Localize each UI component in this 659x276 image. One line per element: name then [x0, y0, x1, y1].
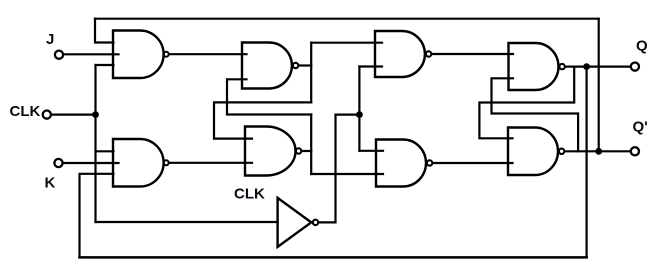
wire G3 output cross to G4 pin1	[214, 102, 311, 138]
node Q' junction	[595, 148, 602, 155]
svg-text:J: J	[46, 31, 54, 48]
inverter U9 (clock inverter)	[278, 198, 319, 247]
wire J input	[63, 53, 118, 55]
wire Q' cross to G7 pin2	[492, 78, 579, 151]
label Q'	[633, 119, 648, 136]
NAND gate G2 (K input gate)	[113, 139, 169, 187]
wire G3 output stub	[299, 64, 311, 66]
svg-text:Q: Q	[636, 38, 648, 55]
wire G4 output stub	[302, 150, 311, 152]
terminal Q'	[631, 147, 639, 155]
wire G5 output to G7 pin1	[432, 53, 513, 55]
NAND gate G8 (slave latch, Q')	[508, 128, 564, 176]
wire G1 output to G3	[169, 53, 246, 55]
wire Q cross to G8 pin1	[479, 67, 574, 139]
wire inverter output	[319, 115, 360, 223]
label J	[46, 31, 54, 48]
wire Q' feedback top border	[95, 18, 599, 20]
wire Q feedback bottom border	[80, 256, 587, 259]
label CLK	[10, 103, 41, 120]
wire CLK to G1 pin3	[96, 64, 114, 66]
node CLK junction	[92, 111, 99, 118]
wire CLK' to G6 pin1	[359, 150, 383, 152]
terminal J	[55, 51, 63, 59]
wire Q' feedback right riser	[598, 19, 600, 152]
label CLK (inverter)	[234, 185, 265, 202]
wire Q output line	[565, 65, 630, 67]
svg-text:CLK: CLK	[10, 103, 41, 120]
label K	[45, 175, 56, 192]
label Q	[636, 38, 648, 55]
NAND gate G4 (master latch)	[245, 127, 301, 176]
wire Q' output line	[565, 150, 631, 152]
NAND gate G3 (master latch)	[242, 43, 298, 89]
node CLK' junction	[356, 111, 363, 118]
terminal CLK	[43, 111, 51, 119]
wire CLK to G2 pin1	[96, 150, 114, 152]
wire Q feedback right riser	[585, 67, 587, 258]
wire CLK input	[51, 113, 95, 115]
wire Q feedback left riser to G2 pin3	[80, 174, 114, 258]
wire CLK to inverter input	[96, 221, 278, 223]
wire CLK' to G5 pin2	[359, 65, 382, 67]
wire G4 output vertical	[310, 115, 312, 175]
wire G4 output to G6 pin2	[311, 173, 383, 175]
NAND gate G5 (slave input gate)	[375, 31, 431, 77]
svg-text:K: K	[45, 175, 56, 192]
svg-text:CLK: CLK	[234, 185, 265, 202]
svg-text:Q': Q'	[633, 119, 648, 136]
NAND gate G6 (slave input gate)	[376, 140, 432, 187]
node Q junction	[583, 63, 590, 70]
wire CLK' vertical	[358, 67, 360, 151]
terminal Q	[631, 63, 639, 71]
NAND gate G1 (J input gate)	[113, 31, 169, 79]
wire Q' feedback left riser to G1	[95, 19, 114, 43]
wire G2 output to G4 pin2	[169, 162, 252, 164]
wire G6 output to G8 pin2	[433, 162, 513, 164]
wire G3 output to G5 pin1	[311, 42, 382, 44]
wire K input	[63, 162, 119, 164]
NAND gate G7 (slave latch, Q)	[509, 43, 565, 90]
wire CLK vertical distribution	[94, 65, 96, 222]
terminal K	[54, 159, 62, 167]
wire G4 output cross to G3 pin2	[227, 79, 311, 114]
wire G3 output vertical	[310, 43, 312, 103]
